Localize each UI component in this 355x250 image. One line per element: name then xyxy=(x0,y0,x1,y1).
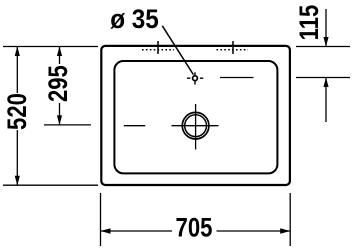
svg-text:115: 115 xyxy=(295,4,325,40)
dimension 705 line right xyxy=(217,230,291,232)
dotted tap-hole line left xyxy=(142,49,174,51)
dimension 705 arrow right xyxy=(280,228,290,233)
faucet centerline dash right xyxy=(220,77,254,79)
dimension 295 arrow down xyxy=(57,115,62,125)
dimension 295 line lower xyxy=(59,103,61,125)
extension line top right xyxy=(296,46,350,48)
dimension 520 line lower xyxy=(16,130,18,185)
drain centerline dash left xyxy=(124,125,145,127)
svg-text:ø 35: ø 35 xyxy=(110,5,159,34)
faucet hole circle xyxy=(193,76,198,81)
extension line bottom right vertical xyxy=(289,193,291,246)
extension line drain level left xyxy=(44,124,91,126)
extension line top left xyxy=(3,46,98,48)
leader line from label to faucet hole xyxy=(162,26,193,75)
dimension 295 arrow up xyxy=(57,47,62,57)
dimension 705 arrow left xyxy=(101,228,111,233)
tap-hole tick left xyxy=(157,41,159,54)
drain inner circle xyxy=(185,115,207,137)
dimension 115 arrow down xyxy=(323,37,328,47)
dimension 705 line left xyxy=(101,230,173,232)
dotted tap-hole line right xyxy=(217,49,249,51)
basin outer rectangle xyxy=(101,46,290,185)
dimension 295 line upper xyxy=(59,47,61,65)
dimension 115 line below xyxy=(325,78,327,123)
basin inner bowl rounded rectangle xyxy=(114,61,277,173)
tap-hole tick right xyxy=(232,41,234,54)
extension line faucet level right xyxy=(296,77,350,79)
dimension 520 line upper xyxy=(16,47,18,94)
drain outer circle xyxy=(182,112,209,139)
extension line bottom left vertical xyxy=(100,193,102,246)
svg-text:295: 295 xyxy=(44,65,74,102)
extension line bottom left xyxy=(3,184,98,186)
dimension 115 line above xyxy=(325,9,327,47)
dimension 115 arrow up xyxy=(323,78,328,88)
dimension 520 arrow up xyxy=(15,47,20,57)
svg-text:705: 705 xyxy=(176,214,213,244)
faucet hole cross ticks xyxy=(187,72,203,84)
svg-text:520: 520 xyxy=(3,93,33,130)
dimension 520 arrow down xyxy=(15,176,20,186)
drain crosshair horizontal xyxy=(172,125,219,127)
drain crosshair vertical xyxy=(195,104,197,150)
